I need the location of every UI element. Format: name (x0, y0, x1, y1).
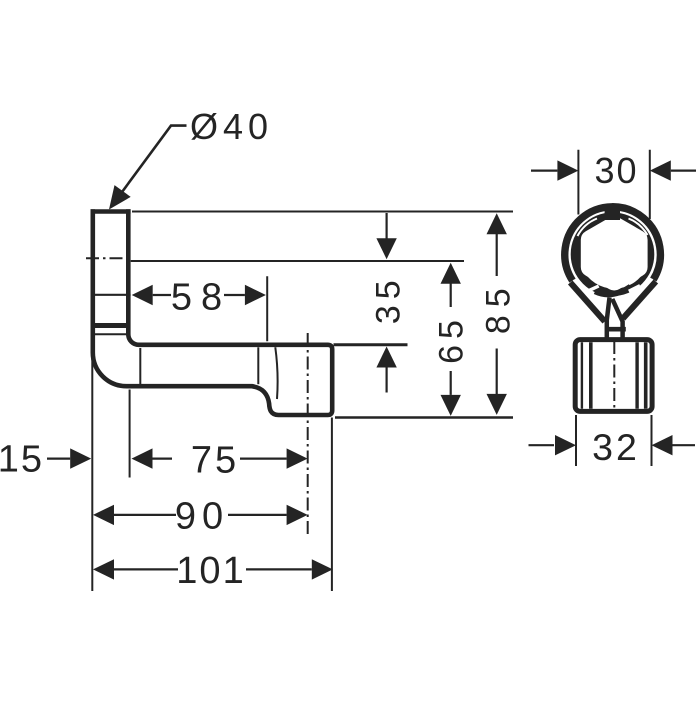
block inner line 1 (581, 342, 583, 409)
socket thin line (95, 333, 126, 335)
svg-text:90: 90 (175, 495, 229, 537)
block curved weld line (275, 347, 277, 399)
svg-text:32: 32 (592, 426, 640, 468)
clamp jaw notch right (629, 286, 640, 292)
clamp neck cross bar (605, 327, 626, 332)
block inner line 3 (635, 342, 638, 409)
clamp Y left arm and neck left wall (607, 298, 610, 341)
block inner line 4 (644, 342, 648, 409)
block centerline right view (613, 341, 615, 410)
extension line x129.6 (129, 390, 131, 478)
dimension 101 (114, 568, 312, 570)
svg-text:30: 30 (594, 150, 638, 191)
dimension 85 (496, 233, 498, 396)
dimension 90 (114, 514, 287, 516)
block right view (575, 340, 652, 412)
clamp white wedge right (617, 292, 632, 318)
leader line O40 (115, 126, 187, 202)
dimension 58 (153, 294, 245, 296)
svg-text:58: 58 (171, 277, 231, 319)
clamp right taper band (623, 282, 656, 319)
block centerline (307, 333, 309, 534)
clamp ring hole (581, 216, 648, 290)
block weld line (257, 347, 259, 384)
clamp jaw notch left (587, 286, 598, 291)
pipe centerline dash-dot (86, 257, 130, 259)
taper inner white separation left (574, 280, 597, 305)
clamp strap crossover white line right (629, 219, 648, 236)
block top extension line (334, 343, 408, 346)
top extension line (132, 211, 513, 213)
taper inner white separation right (630, 279, 653, 304)
block inner line 2 (589, 342, 593, 409)
svg-text:75: 75 (191, 439, 239, 481)
mid reference line y261 (131, 260, 464, 262)
right extension line x331.9 (331, 418, 333, 592)
58 right extension line (266, 276, 268, 341)
bottom extension line (335, 416, 513, 418)
svg-text:85: 85 (480, 280, 518, 334)
clamp strap crossover white line left (578, 219, 598, 237)
svg-text:35: 35 (369, 274, 407, 324)
elbow transition line (139, 348, 141, 384)
dimension 32 (529, 415, 696, 466)
clamp jaw sag band (595, 287, 631, 295)
dimension 35 (386, 213, 388, 393)
svg-text:101: 101 (176, 550, 245, 592)
clamp white wedge left (593, 304, 608, 320)
left extension line x92 (91, 356, 93, 591)
svg-text:65: 65 (433, 314, 471, 364)
dimension 65 (450, 283, 452, 395)
dimension 75 (153, 458, 287, 460)
socket band on vertical pipe (95, 323, 126, 328)
clamp left taper band (570, 283, 605, 322)
pipe outline left view (93, 209, 332, 415)
clamp ring outer band arc (565, 207, 661, 281)
pipe top edge (91, 209, 131, 214)
svg-text:Ø40: Ø40 (190, 106, 273, 147)
clamp hinge block (605, 204, 620, 220)
leader arrowhead (109, 185, 131, 209)
clamp ring inner band disc (571, 212, 655, 296)
dimension 30 (531, 150, 696, 219)
clamp Y right arm and neck right wall (612, 299, 622, 340)
svg-text:15: 15 (0, 439, 44, 481)
58 dim line through pipe (91, 294, 131, 296)
hole bottom rounding patch (582, 253, 646, 289)
